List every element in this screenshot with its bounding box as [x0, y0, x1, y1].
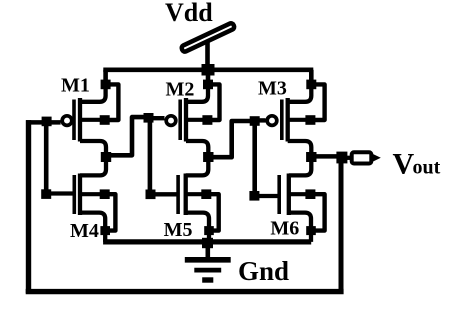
drain lead M6 [289, 157, 312, 175]
gate bar M4 [73, 175, 77, 214]
wire node B to M2 gate bubble [149, 116, 165, 120]
bulk lead M6 [289, 192, 311, 196]
node M3 source junction [306, 80, 316, 90]
source lead M2 [186, 84, 208, 101]
wire Vout node to port [342, 156, 352, 160]
wire M4 gate [46, 191, 74, 195]
wire node A down to M4 gate [44, 121, 49, 194]
drain lead M1 [80, 141, 106, 157]
gate bar M6 [277, 175, 281, 214]
node A (M1 gate tap) [42, 117, 52, 127]
gate bar M2 [178, 100, 182, 141]
gate bar M5 [176, 175, 180, 214]
transistor M2 (PMOS) [166, 84, 219, 157]
channel bar M4 [78, 174, 82, 216]
transistor M5 (NMOS) [178, 157, 219, 242]
drain lead M4 [80, 157, 106, 175]
bulk lead M4 [80, 192, 105, 196]
gate bar M3 [280, 100, 284, 141]
bulk lead M3 [288, 118, 311, 122]
transistor M4 (NMOS) [74, 157, 115, 242]
svg-text:V: V [393, 148, 415, 181]
drain lead M3 [288, 141, 312, 157]
channel bar M3 [286, 98, 290, 142]
wire bottom source rail [103, 239, 311, 244]
wire ground tap [206, 242, 211, 258]
drain lead M5 [186, 157, 209, 175]
gate bubble M3 [267, 116, 277, 126]
svg-text:Gnd: Gnd [238, 256, 289, 286]
node M6 gate junction [249, 191, 259, 201]
node M2 source junction [203, 80, 213, 90]
channel bar M2 [184, 98, 188, 142]
node M5 source-tie junction [204, 226, 214, 235]
gate bubble M2 [166, 116, 176, 126]
bulk lead M5 [186, 192, 207, 196]
node M5 gate junction [146, 190, 156, 200]
wire rail right end drop to M3 source [309, 70, 314, 85]
wire node B down to M5 gate [148, 118, 153, 195]
wire stage2 output to node C [208, 121, 254, 157]
svg-text:M6: M6 [270, 218, 299, 240]
wire feedback bottom [26, 289, 344, 294]
bulk lead M1 [80, 118, 105, 122]
svg-text:M4: M4 [70, 220, 99, 242]
bulk lead M2 [186, 118, 207, 122]
transistor M3 (PMOS) [267, 84, 324, 157]
node stage 2 output [203, 152, 213, 162]
wire rail left end drop to M1 source [103, 70, 108, 85]
wire node C to M3 gate bubble [255, 118, 266, 122]
source-bulk tie wire M1 [105, 84, 119, 120]
node stage 1 output [101, 152, 111, 162]
node rail-Vdd junction [202, 64, 215, 76]
node stage 3 output [306, 152, 316, 162]
wire feedback left vertical [26, 120, 31, 293]
node M4 gate junction [41, 189, 51, 199]
wire node C down to M6 gate [252, 121, 257, 196]
node M4 source-tie junction [100, 226, 110, 235]
source-bulk tie wire M5 [206, 194, 218, 230]
transistor M6 (NMOS) [279, 157, 324, 242]
source lead M3 [288, 84, 312, 101]
wire stage1 output to node B [106, 117, 149, 155]
node M1 source junction [101, 80, 111, 90]
node B (stage2 gate) [144, 113, 154, 123]
node M6 source-tie junction [306, 226, 316, 235]
node M5 bulk junction [201, 189, 211, 199]
wire feedback right vertical (Vout down) [339, 158, 344, 292]
wire input gate link (node A to M1 gate) [26, 120, 61, 125]
svg-text:M5: M5 [164, 219, 193, 241]
drain lead M2 [186, 141, 208, 157]
node rail-M5 junction [202, 238, 213, 248]
node M1 bulk junction [100, 115, 110, 125]
channel bar M5 [184, 174, 188, 216]
gate bar M1 [72, 100, 76, 141]
source-bulk tie wire M2 [207, 84, 219, 120]
node M6 bulk junction [305, 189, 315, 199]
source-bulk tie wire M4 [105, 194, 116, 230]
source-bulk tie wire M3 [310, 84, 324, 120]
svg-text:M1: M1 [61, 75, 90, 97]
wire M6 gate [254, 194, 279, 198]
source-bulk tie wire M6 [310, 194, 324, 230]
source lead M4 [80, 213, 105, 242]
wire stage3 output to Vout node [311, 154, 342, 159]
source lead M1 [80, 84, 106, 101]
power symbol Vdd (slanted bar) [181, 22, 235, 52]
wire Vdd top rail [103, 68, 313, 73]
svg-text:M3: M3 [258, 78, 287, 100]
channel bar M1 [78, 98, 82, 142]
node M4 bulk junction [100, 189, 110, 199]
wire Vdd bar to rail [205, 41, 210, 70]
node M2 bulk junction [202, 115, 212, 125]
svg-text:out: out [413, 157, 441, 179]
wire rail drop to M2 source [206, 70, 211, 85]
ground symbol [185, 260, 231, 280]
node C (stage3 gate) [250, 116, 260, 126]
transistor M1 (PMOS) [62, 84, 118, 157]
source lead M5 [186, 213, 209, 242]
gate bubble M1 [62, 116, 72, 126]
wire M5 gate [151, 192, 179, 196]
svg-text:M2: M2 [166, 79, 195, 101]
node Vout junction [336, 152, 347, 164]
channel bar M6 [287, 174, 291, 216]
source lead M6 [289, 213, 311, 242]
port symbol Vout [352, 152, 381, 163]
node M3 bulk junction [305, 115, 315, 125]
svg-text:Vdd: Vdd [165, 0, 213, 27]
